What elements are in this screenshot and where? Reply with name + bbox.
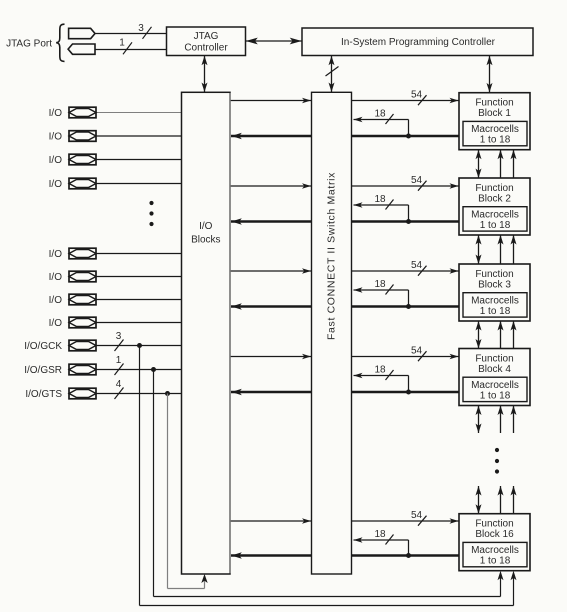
I/O/GTS buffer symbol [69,388,96,399]
svg-text:1 to 18: 1 to 18 [480,220,511,231]
JTAG Port brace [56,24,64,61]
wire: macrocell output bus FB2 to I/O Blocks (thick) [231,218,459,225]
bus slash on I/O/GCK [115,340,124,352]
bus slash on 54 line (FB3) [418,266,427,276]
wire: I/O Blocks to switch matrix (row FB1) [230,98,311,104]
wire: GSR vertical drop [153,370,155,597]
I/O/GSR buffer symbol [69,364,96,375]
wire: GTS riser into I/O Blocks bottom [201,574,207,589]
wire: I/O pin 8 to I/O Blocks [96,322,182,324]
wire: I/O pin 6 to I/O Blocks [96,276,182,278]
bus slash on 54 line (FB4) [418,351,427,361]
wire: ISP Controller to Function Block 1 (bidirectional) [487,56,493,93]
bus slash on 18 line (FB4) [386,370,394,380]
I/O pin 3 buffer symbol [69,154,96,165]
wire: macrocell output bus FB1 to I/O Blocks (thick) [231,133,459,140]
wire: I/O Blocks to switch matrix (row FB2) [230,183,311,189]
svg-text:1 to 18: 1 to 18 [480,390,511,401]
wire: ISP Controller to switch matrix (bidirectional bus) [329,56,335,93]
svg-text:18: 18 [374,365,386,376]
wire: 18-bit feedback bus FB2 to matrix [354,202,409,221]
wire: GCK riser into Function Block 16 [511,571,517,606]
wire: I/O Blocks to switch matrix (row FB16) [230,518,311,524]
junction dot 18-line / output bus (FB3) [406,304,411,309]
svg-text:I/O/GSR: I/O/GSR [24,365,62,376]
wire: 54-bit bus matrix to Function Block 2 [352,183,459,189]
svg-text:I/O: I/O [49,155,63,166]
svg-text:JTAG Port: JTAG Port [6,39,52,50]
wire: 18-bit feedback bus FB4 to matrix [354,373,409,392]
svg-text:Block 2: Block 2 [478,193,511,204]
JTAG input buffer (TDI/TMS/TCK) [69,28,95,38]
svg-text:Macrocells: Macrocells [471,124,519,135]
svg-text:Macrocells: Macrocells [471,209,519,220]
svg-text:Fast CONNECT II Switch Matrix: Fast CONNECT II Switch Matrix [326,172,338,340]
svg-text:4: 4 [116,379,122,390]
svg-text:Block 16: Block 16 [475,529,514,540]
svg-text:54: 54 [411,345,423,356]
svg-text:Function: Function [475,519,513,530]
box: Function Block 3 [459,264,530,321]
bus slash on 54 line (FB2) [418,181,427,191]
wire: I/O Blocks to switch matrix (row FB3) [230,268,311,274]
wire: vertical interconnect below Function Block 4 [476,406,517,434]
wire: JTAG Controller to TDO buffer [95,49,167,51]
I/O pin 7 buffer symbol [69,294,96,305]
wire: GSR riser into Function Block 16 [498,571,504,597]
svg-text:I/O: I/O [49,318,63,329]
wire: I/O/GTS pin to I/O Blocks [96,393,182,395]
svg-text:18: 18 [374,109,386,120]
I/O pin 8 buffer symbol [69,317,96,328]
box: Macrocells 1 to 18 (FB16) [463,542,527,566]
svg-text:I/O: I/O [199,221,213,232]
wire: GCK bottom rail [140,605,514,607]
wire: macrocell output bus FB3 to I/O Blocks (thick) [231,303,459,310]
wire: macrocell output bus FB16 to I/O Blocks (thick) [231,552,459,559]
box: Macrocells 1 to 18 (FB1) [463,121,527,145]
bus slash on 54 line (FB16) [418,516,427,526]
svg-text:18: 18 [374,279,386,290]
svg-text:Macrocells: Macrocells [471,545,519,556]
bus slash on 18 line (FB16) [386,535,394,545]
svg-text:I/O/GCK: I/O/GCK [24,341,62,352]
svg-text:JTAG: JTAG [194,31,219,42]
bus slash on 18 line (FB1) [386,114,394,124]
bus slash on 54 line (FB1) [418,95,427,105]
box: Macrocells 1 to 18 (FB2) [463,207,527,231]
svg-text:Function: Function [475,353,513,364]
svg-text:Controller: Controller [184,43,228,54]
wire: I/O pin 3 to I/O Blocks [96,159,182,161]
svg-text:I/O: I/O [49,108,63,119]
wire: GTS vertical drop (gray) [167,394,169,589]
svg-text:I/O: I/O [49,272,63,283]
svg-text:18: 18 [374,194,386,205]
wire: vertical interconnect above Function Block 16 [476,486,517,514]
svg-text:Macrocells: Macrocells [471,380,519,391]
wire: I/O pin 7 to I/O Blocks [96,299,182,301]
svg-text:1 to 18: 1 to 18 [480,135,511,146]
wire: vertical interconnect between Function Blocks 3 and 4 [476,321,517,349]
I/O/GCK buffer symbol [69,340,96,351]
svg-text:Function: Function [475,269,513,280]
wire: GCK vertical drop [139,346,141,606]
wire: JTAG inputs to JTAG Controller [95,33,167,35]
svg-text:In-System Programming Controll: In-System Programming Controller [341,37,496,48]
JTAG output buffer (TDO) [68,44,95,54]
svg-text:1: 1 [119,37,125,48]
wire: 18-bit feedback bus FB16 to matrix [354,537,409,555]
wire: vertical interconnect between Function Blocks 2 and 3 [476,235,517,264]
I/O pin 4 buffer symbol [69,178,96,189]
wire: 54-bit bus matrix to Function Block 4 [352,354,459,360]
I/O pin 6 buffer symbol [69,271,96,282]
wire: I/O pin 1 to I/O Blocks [96,112,182,114]
box: Function Block 1 [459,93,530,150]
box: I/O Blocks [182,92,231,574]
svg-text:54: 54 [411,89,423,100]
wire: JTAG Controller to I/O Blocks (bidirectional) [202,56,208,93]
bus slash on 18 line (FB3) [386,285,394,295]
ellipsis dots between Function Block 4 and 16 [495,448,499,474]
wire: I/O pin 2 to I/O Blocks [96,135,182,137]
wire: I/O pin 4 to I/O Blocks [96,183,182,185]
box: JTAG Controller [167,27,246,56]
svg-text:1: 1 [116,355,122,366]
bus slash on JTAG output line [123,42,132,54]
bus slash on ISP-matrix line [326,67,339,77]
I/O pin 1 buffer symbol [69,107,96,118]
gray right edge of I/O Blocks box [229,93,231,573]
wire: macrocell output bus FB4 to I/O Blocks (thick) [231,389,459,396]
junction dot on I/O/GTS [165,391,170,396]
wire: 54-bit bus matrix to Function Block 3 [352,268,459,274]
box: Macrocells 1 to 18 (FB3) [463,293,527,317]
svg-text:54: 54 [411,510,423,521]
I/O pin 5 buffer symbol [69,248,96,259]
wire: vertical interconnect between Function Blocks 1 and 2 [476,150,517,178]
svg-text:Function: Function [475,98,513,109]
svg-text:1 to 18: 1 to 18 [480,306,511,317]
svg-text:Block 4: Block 4 [478,364,511,375]
svg-text:1 to 18: 1 to 18 [480,556,511,567]
junction dot on I/O/GSR [151,367,156,372]
box: Function Block 4 [459,349,530,406]
wire: I/O/GSR pin to I/O Blocks [96,369,182,371]
svg-text:18: 18 [374,529,386,540]
svg-text:I/O: I/O [49,249,63,260]
svg-text:Function: Function [475,183,513,194]
svg-text:I/O: I/O [49,295,63,306]
svg-text:I/O: I/O [49,132,63,143]
wire: 54-bit bus matrix to Function Block 16 [352,518,459,524]
svg-text:I/O: I/O [49,179,63,190]
junction dot on I/O/GCK [137,343,142,348]
svg-text:Macrocells: Macrocells [471,295,519,306]
wire: 18-bit feedback bus FB1 to matrix [354,117,409,136]
wire: I/O Blocks to switch matrix (row FB4) [230,354,311,360]
I/O pin 2 buffer symbol [69,131,96,142]
wire: I/O/GCK pin to I/O Blocks [96,345,182,347]
box: Fast CONNECT II Switch Matrix [312,92,352,574]
svg-text:Block 3: Block 3 [478,279,511,290]
wire: 54-bit bus matrix to Function Block 1 [352,98,459,104]
box: Function Block 2 [459,178,530,235]
ellipsis dots between I/O pin groups [149,201,153,226]
svg-text:54: 54 [411,175,423,186]
box: Function Block 16 [459,514,530,571]
junction dot 18-line / output bus (FB1) [406,134,411,139]
wire: JTAG Controller to ISP Controller (bidirectional) [246,38,303,45]
wire: I/O pin 5 to I/O Blocks [96,253,182,255]
box: Macrocells 1 to 18 (FB4) [463,377,527,401]
svg-text:54: 54 [411,260,423,271]
bus slash on I/O/GTS [115,388,124,400]
bus slash on I/O/GSR [115,364,124,376]
wire: GTS bottom run (gray) [168,588,205,590]
svg-text:3: 3 [116,331,122,342]
svg-text:Blocks: Blocks [191,235,220,246]
bus slash on 18 line (FB2) [386,200,394,210]
svg-text:Block 1: Block 1 [478,108,511,119]
wire: GSR bottom rail [154,596,501,598]
junction dot 18-line / output bus (FB16) [406,553,411,558]
wire: 18-bit feedback bus FB3 to matrix [354,287,409,306]
svg-text:3: 3 [138,23,144,34]
junction dot 18-line / output bus (FB4) [406,390,411,395]
junction dot 18-line / output bus (FB2) [406,219,411,224]
box: In-System Programming Controller [302,28,533,56]
bus slash on JTAG input line [143,27,152,39]
svg-text:I/O/GTS: I/O/GTS [25,389,62,400]
